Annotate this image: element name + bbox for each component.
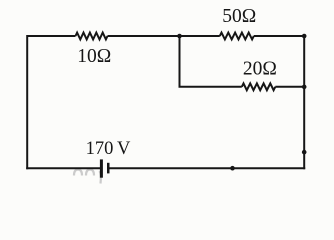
resistor R1 10-ohm zigzag xyxy=(76,33,108,40)
wire: parallel branch drop and run (node A down, right to 20-ohm) xyxy=(180,36,242,87)
battery V1 long plate xyxy=(100,159,103,177)
wire: top wire right segment (50-ohm to top-right node) xyxy=(254,35,304,37)
svg-text:50Ω: 50Ω xyxy=(222,6,256,27)
node D junction dot (right rail lower) xyxy=(302,150,307,155)
svg-text:20Ω: 20Ω xyxy=(243,58,277,79)
battery V1 short plate xyxy=(107,163,110,174)
node A junction dot (branch point, top wire) xyxy=(177,34,182,39)
wire: 20-ohm to right rail xyxy=(275,86,304,88)
resistor R2 50-ohm zigzag xyxy=(220,33,254,40)
node E junction dot (bottom wire) xyxy=(230,166,235,171)
svg-text:170 V: 170 V xyxy=(86,139,131,159)
wire: bottom wire right segment (battery to bottom-right corner) xyxy=(110,167,306,169)
node B junction dot (top-right) xyxy=(302,34,307,39)
svg-text:10Ω: 10Ω xyxy=(77,46,111,67)
wire: top wire left segment (top-left corner to 10-ohm resistor) xyxy=(27,36,75,169)
node C junction dot (right rail at 20-ohm branch) xyxy=(302,85,307,90)
watermark faint marks xyxy=(74,170,101,184)
wire: bottom wire left segment (bottom-left corner to battery) xyxy=(26,167,100,169)
resistor R3 20-ohm zigzag xyxy=(242,83,275,90)
wire: top wire middle segment (10-ohm to node A) xyxy=(108,35,220,37)
wire: right rail (top-right down to bottom-right corner) xyxy=(303,36,305,169)
